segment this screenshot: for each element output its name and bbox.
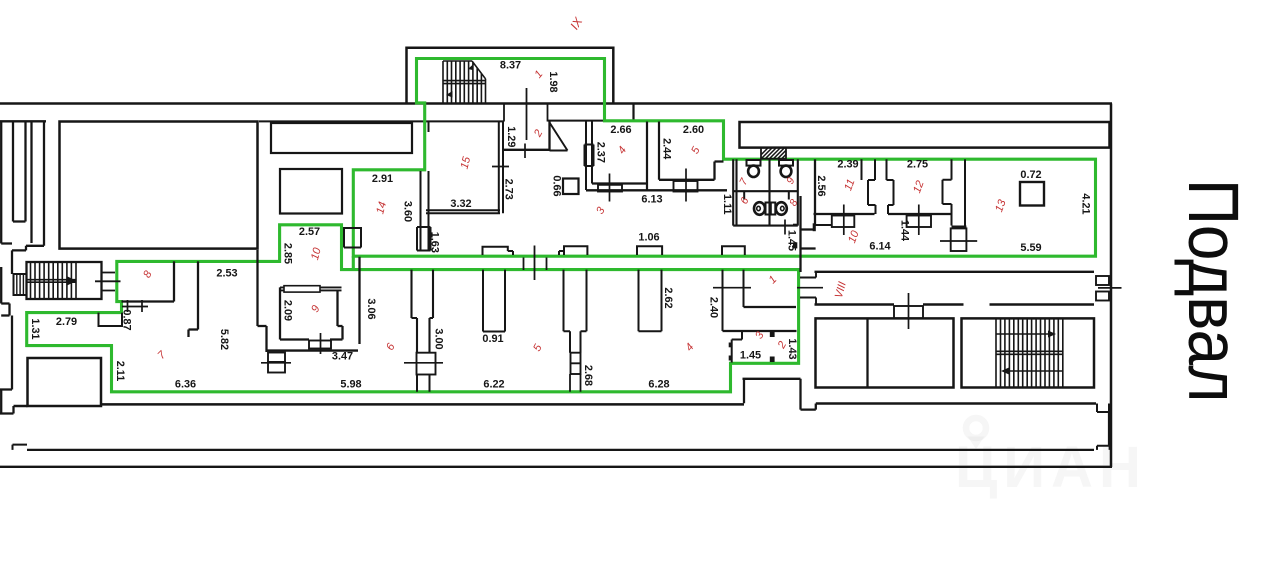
staircase IX outer box [407, 48, 614, 103]
door tick room 5 [685, 169, 687, 202]
wall below hall crossing corridor [258, 250, 267, 352]
door sill wall 6|5 [417, 353, 436, 375]
wall between room 8 and corridor 2.53 [122, 261, 175, 301]
svg-text:1.63: 1.63 [429, 232, 441, 253]
corridor door ticks [524, 246, 547, 281]
room 12 bottom wall [888, 213, 952, 215]
door rect below room 8 exit [99, 313, 123, 326]
door tick corridor VIII left [797, 287, 823, 289]
svg-text:2.57: 2.57 [299, 226, 320, 238]
bottom line y450 [27, 449, 1094, 451]
svg-text:5.59: 5.59 [1020, 242, 1041, 254]
door tick room 9 [320, 333, 322, 354]
wall between rooms 4 and 5 (double) [647, 122, 659, 192]
corridor VIII right door jambs [1096, 276, 1109, 285]
shaft box 0.66 [563, 179, 579, 195]
wall room6 left [358, 257, 360, 344]
wall left of room 4 (window) [585, 122, 594, 191]
right inner vertical [1108, 412, 1110, 446]
svg-text:3.32: 3.32 [450, 198, 471, 210]
svg-text:8.37: 8.37 [500, 59, 521, 71]
right staircase hatch [996, 320, 1064, 387]
window room 9 top [284, 286, 320, 292]
corridor VIII bottom wall [815, 303, 1095, 305]
room 9 walls [280, 287, 343, 339]
door jambs: opening in top wall to room 2 [504, 105, 548, 122]
door stub lower 1.45 block [770, 357, 775, 363]
svg-text:5.82: 5.82 [218, 329, 230, 350]
wall between 15 and 2 (double) [499, 122, 503, 214]
wall pier right of stair block [632, 104, 634, 121]
stairs IX flights hatch [443, 61, 486, 103]
svg-text:2.68: 2.68 [582, 365, 594, 386]
svg-text:1.29: 1.29 [505, 126, 517, 147]
corridor VIII left jambs [800, 272, 816, 305]
svg-text:1.98: 1.98 [547, 71, 559, 92]
svg-text:2.40: 2.40 [708, 297, 720, 318]
WC stall walls [733, 159, 798, 225]
svg-text:2.60: 2.60 [683, 124, 704, 136]
door stub upper 1.45 block [770, 332, 775, 338]
wall: left edge notch [1, 267, 9, 316]
door jambs 1.45 block [729, 343, 733, 348]
wall right of corridor 2.53 [189, 261, 199, 337]
wall 6|5 below door [417, 375, 430, 392]
stub wall 0.91 with bump [483, 247, 514, 332]
door sill below room 11 [832, 216, 855, 228]
door swing room 2 [550, 123, 568, 151]
wall between rooms 6 and 5 [412, 270, 434, 353]
wall: top inner line middle [259, 120, 604, 123]
svg-text:4.21: 4.21 [1080, 193, 1092, 214]
hatched vent shaft [761, 148, 786, 159]
room 11 bottom wall [814, 213, 875, 215]
room 9 top double wall [280, 287, 342, 290]
room 1 bottom wall [744, 306, 797, 308]
wall under room 9 area [267, 349, 359, 351]
wall: building right edge [1110, 104, 1113, 468]
wall pair above room 1 with bump [722, 246, 745, 331]
door jambs from stair landing to room 8 [102, 273, 116, 291]
svg-text:2.44: 2.44 [661, 138, 673, 159]
left staircase lower run hatch [17, 274, 24, 295]
door tick corridor VIII right [1098, 287, 1122, 289]
room 11 left wall [814, 159, 816, 225]
svg-text:2.73: 2.73 [503, 179, 515, 200]
wall: building top outer wall [0, 102, 1112, 105]
svg-text:3.60: 3.60 [401, 201, 413, 222]
door tick corridor VIII [908, 293, 910, 329]
door ticks room 8 bottom [122, 300, 148, 312]
duct rectangle above hall [271, 123, 412, 153]
wall x800 wc corridor [799, 196, 801, 272]
wall: top inner line left [0, 120, 46, 122]
shaft square room 13 [1020, 182, 1044, 206]
svg-text:0.91: 0.91 [482, 333, 503, 345]
door bump over wall x359 [344, 228, 361, 248]
door tick wall 6|5 [404, 362, 443, 364]
room: black room bottom-left [28, 358, 102, 406]
svg-text:2.11: 2.11 [114, 361, 126, 382]
svg-text:1.11: 1.11 [721, 194, 733, 215]
corridor 6.14 left door jamb marks [793, 224, 797, 227]
door tick room 4 [609, 174, 611, 202]
room 1.45 block top wall [723, 330, 797, 332]
left staircase lower run [14, 274, 27, 295]
wall step right of room 4 [743, 379, 816, 410]
svg-text:6.22: 6.22 [483, 379, 504, 391]
room 1.45 block left zigzag [732, 331, 742, 363]
door sill room 9 [309, 341, 331, 349]
svg-text:3.47: 3.47 [332, 350, 353, 362]
svg-text:6.13: 6.13 [641, 194, 662, 206]
corridor 6.14 left door walls [801, 230, 816, 249]
svg-text:1.45: 1.45 [740, 350, 761, 362]
svg-text:2.75: 2.75 [907, 159, 928, 171]
corridor 6.14 top-left wall [814, 224, 833, 226]
right staircase arrows [1001, 331, 1056, 375]
watermark pin [966, 418, 986, 438]
band room above WC [740, 122, 1110, 148]
svg-text:5.98: 5.98 [340, 379, 361, 391]
left staircase hatch [27, 262, 77, 299]
door sill room 5 [674, 181, 698, 192]
room 5 bottom wall with step [659, 162, 724, 180]
svg-text:2.85: 2.85 [282, 243, 294, 264]
svg-text:2.09: 2.09 [282, 300, 294, 321]
svg-text:2.56: 2.56 [815, 175, 827, 196]
stub wall in room 4 with bump [637, 246, 662, 331]
svg-text:1.43: 1.43 [786, 338, 798, 359]
svg-text:1.06: 1.06 [638, 232, 659, 244]
room 4 bottom wall [592, 182, 647, 184]
corridor VIII top wall [815, 271, 1095, 273]
door sill corridor VIII [894, 306, 923, 318]
green connector at x353 [352, 256, 355, 269]
building bottom line [0, 466, 1112, 468]
svg-text:2.66: 2.66 [610, 124, 631, 136]
door tick stair landing [95, 280, 121, 282]
svg-text:ЦИАН: ЦИАН [955, 435, 1147, 500]
WC lower stall door stubs [744, 192, 789, 200]
shaft square below duct [280, 169, 342, 214]
svg-text:2.79: 2.79 [56, 316, 77, 328]
svg-text:Подвал: Подвал [1173, 179, 1252, 402]
door sills left of 3.47 wall [268, 353, 285, 363]
toilet stall 9 [779, 160, 793, 166]
right staircase box [962, 318, 1095, 387]
door tick room 11 [843, 205, 845, 236]
door tick left of room 13 [940, 240, 977, 242]
svg-text:2.37: 2.37 [595, 142, 607, 163]
dimension tick at x527 through top wall [526, 88, 528, 140]
stairs IX arrows [446, 64, 474, 98]
notch box bottom right [1097, 404, 1109, 413]
notch right on y450 [1097, 446, 1110, 450]
rooms box below corridor VIII [816, 318, 954, 387]
svg-text:6.28: 6.28 [648, 379, 669, 391]
door tick room 1 [713, 287, 751, 289]
wall between rooms 11 and 12 [868, 159, 894, 214]
wall between 14 and 15 (double with window) [417, 122, 431, 251]
shaft walls far left [13, 122, 44, 246]
door sill box left of room 13 [951, 228, 967, 251]
door tick room 12 [918, 205, 920, 236]
svg-text:2.39: 2.39 [837, 159, 858, 171]
green outline: upper premises (stairs IX + rooms 14,15,2,3,4,5,11,12,13) [353, 59, 1095, 257]
door sill room 4 [598, 185, 622, 192]
wall right of room 12 (with bulge) [943, 159, 967, 226]
toilet stall 6 [766, 203, 771, 215]
wall between rooms 5 and 4 with bump [559, 246, 587, 353]
left staircase outer box [27, 262, 102, 299]
left staircase arrow [66, 278, 76, 285]
door tick 3.47 [261, 362, 291, 364]
door sill wall 5|4 [571, 353, 581, 374]
toilet stall 7 [747, 160, 761, 166]
wall 5|4 below door [570, 363, 581, 392]
svg-text:2.53: 2.53 [216, 267, 237, 279]
room: big top-left hall [60, 122, 258, 249]
wall: left edge upper [0, 121, 2, 243]
wall zigzag left of big room [1, 244, 44, 275]
toilet stall 8 [771, 203, 776, 215]
green outline: lower premises (rooms 1-10) [27, 225, 799, 392]
svg-text:0.72: 0.72 [1020, 169, 1041, 181]
room 2 box [503, 122, 550, 150]
wall stub x861 [861, 159, 863, 180]
svg-text:0.87: 0.87 [121, 309, 133, 330]
svg-text:1.31: 1.31 [29, 318, 41, 339]
svg-text:6.36: 6.36 [175, 379, 196, 391]
svg-text:6.14: 6.14 [869, 241, 890, 253]
long bottom wall y403 [101, 403, 744, 406]
door sill below room 12 [907, 216, 931, 228]
svg-text:2.91: 2.91 [372, 173, 393, 185]
svg-text:2.62: 2.62 [662, 287, 674, 308]
room 15 bottom double wall [426, 210, 500, 213]
door tick on wall 15|2 [492, 166, 509, 168]
divider of rooms box [866, 318, 868, 387]
svg-text:3.06: 3.06 [365, 298, 377, 319]
svg-text:0.66: 0.66 [551, 175, 563, 196]
notch left on y450 [13, 445, 28, 450]
door tick room 2 bottom [524, 144, 526, 159]
door tick wc [784, 220, 786, 235]
svg-text:1.44: 1.44 [899, 220, 911, 241]
svg-text:3.00: 3.00 [433, 328, 445, 349]
wall: bottom wall segment [14, 405, 28, 408]
wall: left edge lower [0, 316, 14, 414]
wall under rooms 3/4 (corridor top) [586, 189, 727, 191]
